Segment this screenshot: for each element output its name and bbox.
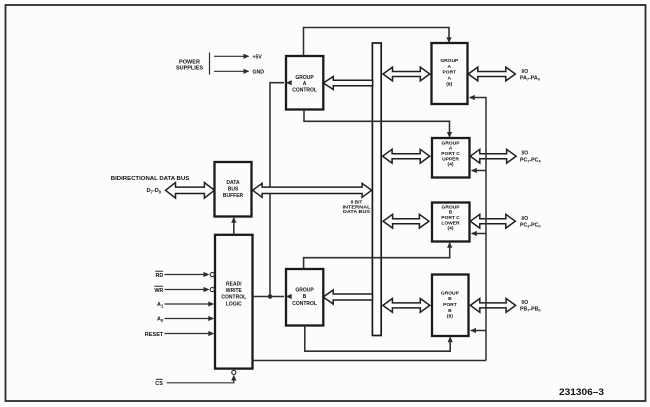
wire: read/write logic to group B control [253,296,285,298]
svg-text:GROUP: GROUP [295,288,314,294]
wire: input RD [165,274,209,276]
svg-text:WRITE: WRITE [226,288,243,294]
svg-text:GROUP: GROUP [442,204,461,210]
svg-text:A0: A0 [157,317,164,323]
svg-text:PORT: PORT [443,70,457,76]
svg-text:SUPPLIES: SUPPLIES [176,66,204,72]
svg-text:(4): (4) [448,162,454,168]
svg-text:D7-D0: D7-D0 [147,188,162,194]
svg-text:PA7-PA0: PA7-PA0 [520,76,541,82]
read/write control logic block [215,235,253,369]
svg-text:BUS: BUS [228,187,239,193]
svg-text:A: A [303,81,307,87]
svg-text:(8): (8) [446,81,452,87]
data bus buffer to internal bus arrow [253,183,372,197]
svg-text:WR: WR [154,288,163,294]
bus to port B hollow arrow [383,299,430,313]
svg-text:231306–3: 231306–3 [559,387,604,397]
wire: group B control top to port C lower bottom [304,243,450,269]
wire: input WR [165,289,209,291]
data bus buffer block [215,162,252,217]
svg-text:+5V: +5V [253,54,263,60]
svg-text:GROUP: GROUP [295,75,314,81]
bus to port C lower hollow arrow [383,214,429,228]
inverting circle CS [232,370,236,374]
port A to I/O pins hollow arrow [468,67,515,81]
wire: input RESET [165,333,213,335]
svg-text:PORT C: PORT C [441,151,460,157]
svg-text:B: B [449,210,453,216]
wire: group A control bottom to port C upper top [304,110,450,137]
group B port B block [432,275,469,337]
svg-text:PC3-PC0: PC3-PC0 [520,223,541,229]
bus to group A control hollow arrow [323,77,372,90]
svg-text:BIDIRECTIONAL DATA BUS: BIDIRECTIONAL DATA BUS [111,176,190,182]
riser arrow into port C lower right edge [472,233,486,235]
svg-text:CONTROL: CONTROL [221,295,246,301]
group A control block U-GA [286,56,323,110]
svg-text:B: B [448,308,452,314]
svg-text:I/O: I/O [522,216,529,222]
inverting circle WR [210,287,214,291]
svg-text:LOWER: LOWER [441,220,460,226]
svg-text:I/O: I/O [522,300,529,306]
svg-text:I/O: I/O [522,151,529,157]
svg-text:GROUP: GROUP [442,140,461,146]
svg-text:DATA: DATA [226,180,240,186]
svg-text:A: A [448,76,452,82]
svg-text:PORT: PORT [443,302,457,308]
bus to group B control hollow arrow [323,290,372,304]
port C upper to I/O pins hollow arrow [470,149,516,163]
wire: input A1 [165,303,213,305]
bus to port A hollow arrow [383,67,430,81]
svg-text:A: A [449,146,453,152]
svg-text:A1: A1 [157,302,164,308]
riser arrow into port C upper right edge [472,170,486,172]
svg-text:(4): (4) [448,226,454,232]
wire: input A0 [165,318,213,320]
svg-text:PB7-PB0: PB7-PB0 [520,307,541,313]
wire: GND arrow [214,70,247,72]
wire: read/write logic to group A control (vertical riser x=270) [270,83,284,297]
inverting circle RD [210,272,214,276]
svg-text:GROUP: GROUP [440,58,459,64]
svg-text:LOGIC: LOGIC [226,301,242,307]
svg-text:RD: RD [156,273,164,279]
svg-text:B: B [303,294,307,300]
riser arrow into port B right edge [471,330,486,332]
junction dot [268,294,273,299]
group B control block U-GB [286,269,323,326]
group A port C upper block [432,138,470,178]
group A port A block [432,43,468,104]
svg-text:CONTROL: CONTROL [292,301,317,307]
svg-text:BUFFER: BUFFER [223,193,244,199]
svg-text:PC7-PC4: PC7-PC4 [520,158,541,164]
power supplies bracket [209,53,211,75]
svg-text:B: B [448,296,452,302]
wire: internal control riser x=486 with arrows into port blocks [470,98,486,361]
group B port C lower block [432,203,470,242]
bus to port C upper hollow arrow [383,149,430,163]
svg-text:RESET: RESET [145,332,164,338]
svg-text:POWER: POWER [179,59,200,65]
svg-text:PORT C: PORT C [441,215,460,221]
svg-text:CS: CS [155,381,163,387]
wire: input CS [167,377,234,383]
svg-text:UPPER: UPPER [442,156,459,162]
svg-text:(8): (8) [447,314,453,320]
svg-text:GROUP: GROUP [441,290,460,296]
wire: group A control top to port A top [304,28,450,57]
svg-text:A: A [448,64,452,70]
svg-text:DATA BUS: DATA BUS [343,209,371,215]
port B to I/O pins hollow arrow [470,299,515,313]
wire: group B control bottom to port B bottom [305,326,450,352]
svg-text:CONTROL: CONTROL [292,88,317,94]
bus: 8-bit internal data bus (vertical) [372,43,381,336]
wire: read/write logic right to internal control riser [253,360,487,362]
svg-text:I/O: I/O [522,69,529,75]
wire: read/write logic to data bus buffer [233,218,235,235]
port C lower to I/O pins hollow arrow [470,214,515,228]
svg-text:READ/: READ/ [226,281,242,287]
wire: +5V arrow [214,55,247,57]
svg-text:GND: GND [253,69,265,75]
bidirectional data bus external arrow (D7-D0 to data bus buffer) [166,183,215,199]
